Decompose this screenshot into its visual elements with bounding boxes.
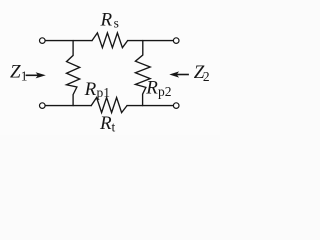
label Z2 — [194, 62, 210, 84]
resistor Rp1 vertical with leads — [67, 41, 80, 106]
terminal bottom-right — [173, 103, 179, 109]
wire top-right — [128, 40, 174, 42]
svg-text:p2: p2 — [158, 84, 172, 99]
svg-text:R: R — [99, 113, 112, 134]
label Rp2 — [145, 78, 171, 99]
terminal bottom-left — [40, 103, 46, 109]
terminal top-left — [40, 38, 46, 44]
resistor Rs zigzag — [92, 33, 128, 48]
label Rs — [100, 9, 119, 30]
label Rp1 — [84, 79, 110, 100]
wire top-left — [45, 40, 92, 42]
svg-text:p1: p1 — [97, 85, 111, 100]
svg-text:2: 2 — [203, 69, 210, 84]
label Rt — [99, 113, 116, 134]
resistor Rt zigzag — [91, 98, 127, 113]
svg-text:R: R — [145, 78, 158, 99]
svg-text:Z: Z — [10, 62, 21, 83]
label Z1 — [10, 62, 28, 84]
svg-text:s: s — [114, 16, 119, 31]
arrow for Z2 pointing left — [169, 71, 189, 77]
wire bottom-left — [45, 105, 91, 107]
svg-text:R: R — [84, 79, 97, 100]
svg-text:t: t — [112, 119, 116, 134]
arrow for Z1 pointing right — [26, 72, 46, 78]
wire bottom-right — [127, 105, 173, 107]
resistor Rp2 vertical with leads — [135, 41, 150, 106]
svg-text:R: R — [100, 9, 113, 30]
terminal top-right — [173, 38, 179, 44]
